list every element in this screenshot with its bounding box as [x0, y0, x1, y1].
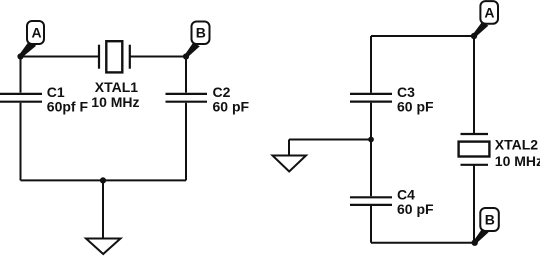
capacitor C3: [350, 94, 392, 102]
junction dot at node B left: [183, 53, 189, 59]
ground: left circuit: [86, 239, 121, 255]
crystal XTAL1: [99, 41, 130, 72]
svg-text:60pf F: 60pf F: [47, 98, 89, 114]
svg-text:B: B: [485, 211, 495, 227]
wire: XTAL1 right lead to node B: [130, 56, 186, 58]
svg-text:XTAL2: XTAL2: [495, 136, 539, 152]
capacitor C2: [166, 94, 208, 102]
node B: right circuit flag: [474, 208, 499, 244]
svg-text:A: A: [484, 4, 494, 20]
capacitor C4: [350, 197, 392, 205]
svg-text:10 MHz: 10 MHz: [495, 153, 540, 169]
svg-text:A: A: [31, 25, 41, 41]
wire: left vertical from node A down to C1: [20, 57, 22, 93]
svg-text:60 pF: 60 pF: [397, 98, 434, 114]
wire: ground stem of left circuit: [102, 180, 104, 238]
wire: C4 down to bottom rail: [370, 206, 372, 243]
node A: right circuit flag: [473, 1, 498, 37]
wire: right circuit left vertical down to C3: [370, 36, 372, 93]
wire: from C2 down to bottom rail: [185, 103, 187, 181]
wire: right circuit top rail: [371, 35, 474, 37]
ground: right circuit: [273, 156, 307, 172]
junction dot at node B right: [472, 240, 478, 246]
svg-text:XTAL1: XTAL1: [95, 79, 139, 95]
junction dot at node A left: [17, 53, 23, 59]
wire: XTAL2 bottom lead to node B: [473, 165, 475, 243]
wire: bottom rail of left circuit: [21, 179, 187, 181]
wire: ground branch horizontal: [289, 139, 371, 141]
wire: from C1 down to bottom rail: [20, 103, 22, 181]
node B: left circuit flag: [185, 22, 210, 58]
junction dot at right ground branch: [368, 137, 374, 143]
svg-text:10 MHz: 10 MHz: [91, 94, 139, 110]
wire: right vertical from node A down to XTAL2: [473, 36, 475, 134]
wire: ground branch vertical drop: [288, 140, 290, 156]
wire: C3 to C4 through ground junction: [370, 103, 372, 197]
wire: left top from node A to XTAL1 left lead: [21, 56, 100, 58]
node A: left circuit flag: [19, 21, 44, 58]
junction dot at left ground: [100, 177, 106, 183]
svg-text:60 pF: 60 pF: [213, 98, 250, 114]
crystal XTAL2: [459, 134, 490, 165]
svg-text:60 pF: 60 pF: [397, 201, 434, 217]
svg-text:B: B: [196, 24, 206, 40]
wire: right circuit bottom rail: [371, 242, 475, 244]
capacitor C1: [0, 94, 42, 102]
wire: right vertical from node B down to C2: [185, 57, 187, 93]
junction dot at node A right: [471, 33, 477, 39]
